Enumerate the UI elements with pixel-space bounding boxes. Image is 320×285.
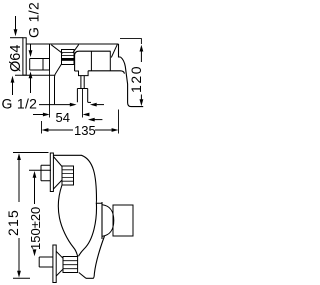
body lower right curve <box>93 236 105 278</box>
top union cone flanks <box>53 157 62 190</box>
Ø64 bottom arrow <box>11 76 15 95</box>
body left face <box>75 51 111 71</box>
top union escutcheon disc <box>50 153 53 192</box>
120 top extension <box>120 39 141 44</box>
lever notch vertical <box>109 51 111 71</box>
top union holder block <box>41 165 50 181</box>
leader arrow G1/2 top <box>14 16 18 36</box>
handle knob lens <box>103 205 114 236</box>
outlet pipe (narrow) <box>81 76 84 89</box>
handle shaft rectangle <box>113 205 133 236</box>
svg-text:120: 120 <box>128 65 144 93</box>
step face <box>49 44 51 70</box>
120 dimension <box>140 45 144 62</box>
hose coupling shoulder <box>77 88 87 90</box>
coupling right indicator arrow <box>88 118 103 122</box>
union holder rails <box>30 58 50 60</box>
bottom union escutcheon disc <box>53 245 56 283</box>
body left inner edge (S) <box>58 185 77 256</box>
coupling corner line <box>88 101 91 103</box>
135 right extension <box>118 110 120 134</box>
escutcheon cone flanks <box>51 45 62 54</box>
215 dimension <box>17 153 21 202</box>
svg-text:Ø64: Ø64 <box>8 45 24 72</box>
small up arrow at x30.5 <box>29 72 33 94</box>
svg-text:215: 215 <box>5 209 21 236</box>
outlet axis / 54-dim right extension <box>82 89 84 118</box>
lever right vertical <box>119 44 121 57</box>
150±20 top extension <box>29 169 51 171</box>
G 1/2 label (middle, horizontal) <box>2 96 38 112</box>
svg-text:150±20: 150±20 <box>28 207 43 250</box>
lever diagonal <box>111 44 117 57</box>
handle grip outline <box>121 57 144 107</box>
54-dim left extension <box>49 70 51 118</box>
G1/2 leader with arrow to pipe <box>39 103 77 107</box>
outlet socket step <box>75 71 89 76</box>
54 dimension <box>33 113 50 117</box>
body top flat and right outline <box>54 155 97 200</box>
135 dimension <box>42 128 73 132</box>
body top edge line <box>26 43 118 45</box>
handle step top <box>96 200 102 203</box>
top union nut <box>62 166 74 185</box>
bottom outlet corner <box>79 273 86 279</box>
Ø64 bottom extension line <box>15 74 55 76</box>
svg-text:G 1/2: G 1/2 <box>26 2 42 38</box>
right leader piece with left arrow <box>90 103 104 107</box>
135 left extension <box>41 121 43 134</box>
body inner line <box>90 51 92 71</box>
150±20 dimension <box>33 171 37 204</box>
union nut <box>62 50 75 65</box>
escutcheon disc (edge-on, on wall) <box>23 38 26 75</box>
escutcheon top extension line <box>10 37 23 39</box>
215 bottom extension <box>13 277 30 279</box>
small down arrow at x30.5 <box>29 44 33 57</box>
union lower-left outline <box>55 64 62 104</box>
bottom union cone flanks <box>56 251 63 276</box>
bottom union holder block <box>39 257 53 267</box>
G 1/2 label (top, rotated) <box>26 2 42 38</box>
body right inner edge sweeping to bottom union <box>79 203 97 256</box>
bottom union nut <box>63 257 78 273</box>
body bottom edge <box>88 71 124 74</box>
hose coupling walls <box>77 89 87 103</box>
svg-text:135: 135 <box>74 123 96 138</box>
wall line / 215 top extension <box>13 152 49 154</box>
Ø64 label (rotated) <box>8 45 24 72</box>
svg-text:54: 54 <box>56 110 70 125</box>
handle front face <box>101 202 103 239</box>
svg-text:G 1/2: G 1/2 <box>2 96 38 112</box>
body bottom flat <box>86 277 94 279</box>
